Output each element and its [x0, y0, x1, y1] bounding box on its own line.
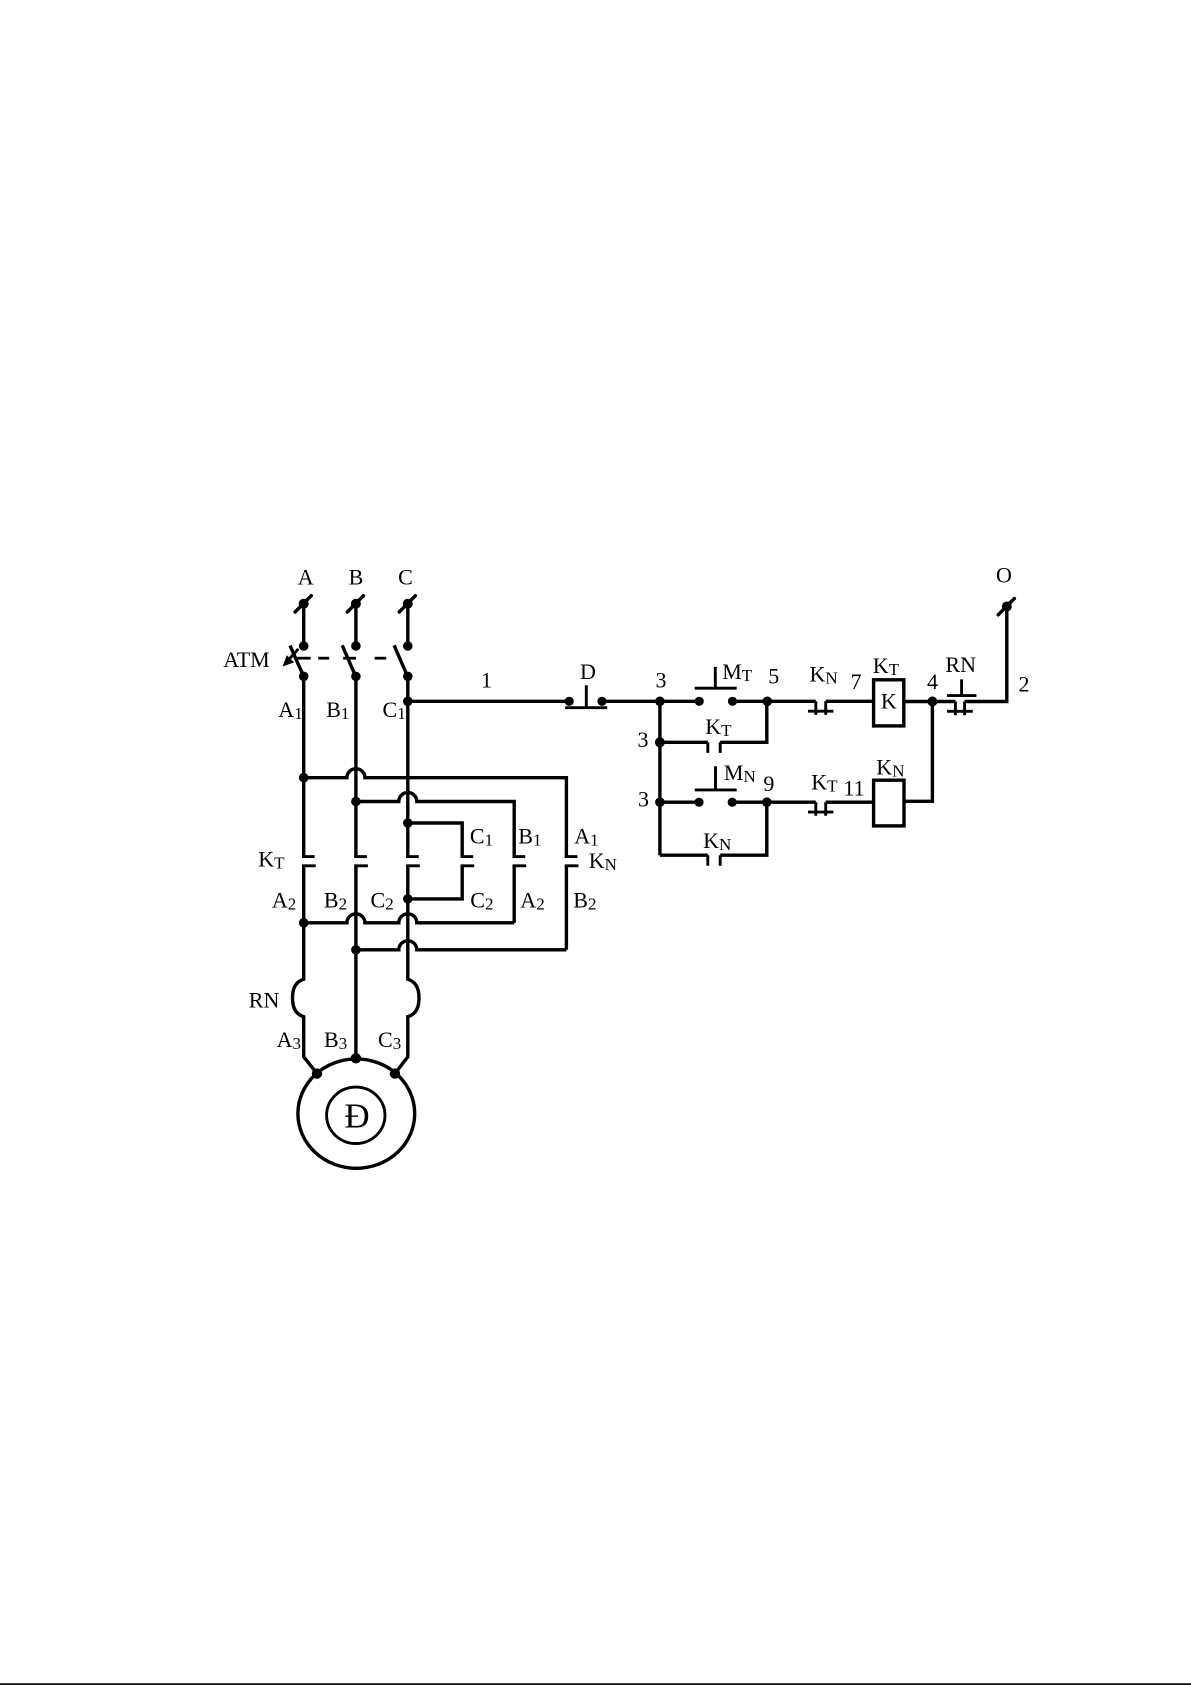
svg-text:KN: KN: [703, 828, 731, 854]
svg-text:KN: KN: [876, 755, 904, 781]
svg-text:KT: KT: [873, 653, 900, 679]
svg-text:C: C: [398, 564, 413, 589]
svg-text:A: A: [298, 564, 314, 589]
svg-text:MN: MN: [724, 760, 756, 786]
svg-text:C3: C3: [378, 1027, 401, 1053]
svg-text:3: 3: [638, 727, 649, 752]
svg-text:B2: B2: [324, 888, 347, 914]
svg-text:3: 3: [638, 787, 649, 812]
svg-text:7: 7: [851, 669, 862, 694]
svg-text:RN: RN: [945, 652, 976, 677]
svg-text:C1: C1: [383, 697, 406, 723]
svg-text:2: 2: [1019, 672, 1030, 697]
svg-text:KT: KT: [811, 770, 838, 796]
svg-text:A1: A1: [574, 824, 598, 850]
svg-text:Đ: Đ: [344, 1097, 369, 1136]
svg-text:C1: C1: [470, 824, 493, 850]
svg-text:1: 1: [481, 668, 492, 693]
svg-text:KT: KT: [258, 847, 285, 873]
svg-text:B2: B2: [573, 888, 596, 914]
svg-text:B3: B3: [324, 1027, 347, 1053]
svg-text:D: D: [580, 659, 596, 684]
svg-text:KN: KN: [810, 661, 838, 687]
svg-text:3: 3: [656, 667, 667, 692]
svg-text:9: 9: [763, 771, 774, 796]
svg-text:B1: B1: [518, 824, 541, 850]
svg-text:KT: KT: [705, 714, 732, 740]
svg-text:A3: A3: [277, 1027, 301, 1053]
svg-text:MT: MT: [722, 659, 753, 685]
svg-text:A2: A2: [272, 888, 296, 914]
svg-text:RN: RN: [249, 988, 280, 1013]
svg-text:B: B: [349, 564, 364, 589]
svg-text:KN: KN: [589, 848, 617, 874]
svg-text:C2: C2: [371, 888, 394, 914]
svg-text:11: 11: [843, 776, 864, 801]
svg-text:K: K: [881, 688, 897, 713]
svg-text:O: O: [996, 562, 1012, 587]
svg-text:A2: A2: [520, 888, 544, 914]
svg-text:ATM: ATM: [223, 647, 269, 672]
svg-text:C2: C2: [470, 888, 493, 914]
svg-text:A1: A1: [278, 697, 302, 723]
svg-text:5: 5: [768, 664, 779, 689]
svg-text:B1: B1: [326, 697, 349, 723]
svg-text:4: 4: [927, 669, 938, 694]
